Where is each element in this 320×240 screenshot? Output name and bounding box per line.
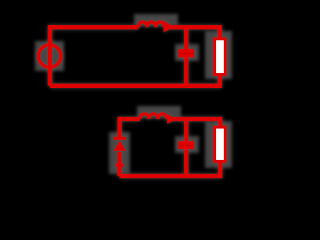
inductor L2 — [140, 114, 167, 119]
resistor R2 — [215, 127, 226, 161]
wire top circuit: top wire right segment — [165, 27, 220, 39]
wire top circuit: top wire left segment — [50, 27, 139, 86]
resistor R1 — [215, 39, 226, 75]
wire bottom of top circuit — [50, 75, 220, 86]
current source I1 — [39, 45, 61, 67]
capacitor C2 — [178, 141, 194, 149]
inductor L1 — [139, 22, 165, 27]
wire bottom circuit: top wire right segment — [168, 119, 221, 127]
wire capacitor 2 branch top — [184, 119, 188, 141]
wire diode branch lower — [117, 152, 121, 176]
wire bottom circuit: top wire left segment — [120, 119, 140, 137]
diode D1 — [114, 137, 126, 151]
wire capacitor branch top — [184, 27, 188, 49]
capacitor C1 — [178, 49, 194, 57]
arrow current direction diode branch — [115, 164, 125, 173]
wire capacitor 2 branch bottom — [184, 149, 188, 176]
arrow current direction top — [164, 21, 175, 33]
wire capacitor branch bottom — [184, 57, 188, 85]
arrow current direction bottom — [167, 114, 177, 123]
wire bottom of bottom circuit — [120, 161, 221, 176]
